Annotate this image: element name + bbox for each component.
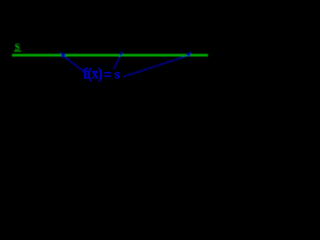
number line (green horizontal line representing set s): [12, 54, 208, 57]
arrow 1 (label to left point of line): [60, 52, 84, 72]
underline of green s: [14, 50, 21, 51]
arrow 2 (label to middle point of line): [114, 51, 123, 69]
svg-text:f(x): f(x): [83, 66, 102, 83]
equals sign (blue): [104, 72, 111, 74]
svg-text:s: s: [114, 67, 120, 82]
arrow 3 (label to right point of line): [124, 51, 192, 76]
